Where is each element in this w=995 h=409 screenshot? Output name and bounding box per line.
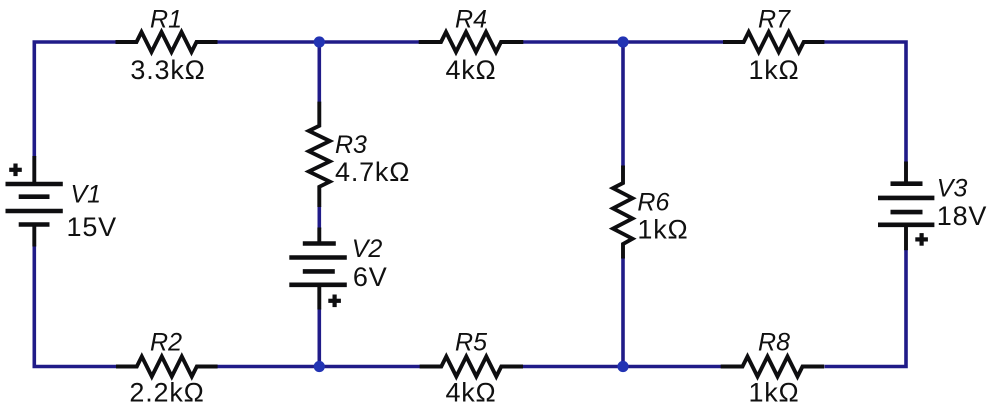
- svg-text:1kΩ: 1kΩ: [748, 378, 799, 408]
- svg-text:R2: R2: [150, 329, 182, 357]
- resistor R2: [116, 357, 218, 377]
- wire branch1 upper (node1 to R3): [317, 42, 321, 103]
- svg-text:4.7kΩ: 4.7kΩ: [335, 157, 410, 187]
- resistor R7: [723, 32, 824, 52]
- svg-text:3.3kΩ: 3.3kΩ: [130, 55, 205, 85]
- resistor R8: [721, 357, 825, 377]
- wire bottom node1 segment: [217, 365, 421, 369]
- svg-text:2.2kΩ: 2.2kΩ: [129, 378, 204, 408]
- svg-text:R8: R8: [758, 329, 790, 357]
- svg-text:1kΩ: 1kΩ: [637, 214, 688, 244]
- svg-text:V1: V1: [71, 180, 102, 208]
- resistor R4: [419, 32, 524, 52]
- battery V1: [6, 156, 63, 247]
- wire bottom node2 segment: [523, 365, 722, 369]
- wire top node2 segment: [523, 40, 724, 44]
- svg-text:18V: 18V: [937, 201, 987, 231]
- wire branch2 upper (node2 to R6): [621, 42, 625, 167]
- wire branch1 middle (R3 to V2): [317, 206, 321, 229]
- battery V3: [878, 162, 934, 251]
- svg-text:R7: R7: [758, 6, 791, 34]
- wire branch2 lower (R6 to bottom node2): [621, 258, 625, 367]
- resistor R1: [116, 32, 218, 52]
- svg-text:15V: 15V: [67, 212, 117, 242]
- svg-text:6V: 6V: [353, 262, 388, 292]
- battery V2 plus sign: [328, 295, 341, 308]
- wire top-left segment: [34, 42, 116, 157]
- battery V3 plus sign: [915, 233, 928, 246]
- wire top node1 segment: [217, 40, 420, 44]
- svg-text:R1: R1: [150, 6, 182, 34]
- resistor R6 (vertical): [613, 166, 633, 259]
- node D (bottom junction 2): [617, 361, 628, 372]
- svg-text:V2: V2: [352, 235, 383, 263]
- svg-text:R4: R4: [455, 6, 487, 34]
- wire bottom-left segment: [34, 246, 116, 367]
- battery V1 plus sign: [9, 164, 22, 177]
- svg-text:4kΩ: 4kΩ: [445, 55, 496, 85]
- battery V2: [289, 228, 347, 310]
- node B (top junction 2): [617, 36, 628, 47]
- wire top-right segment: [824, 42, 906, 162]
- resistor R3 (vertical): [309, 102, 330, 207]
- wire branch1 lower (V2 to bottom node1): [317, 309, 321, 367]
- node A (top junction 1): [314, 36, 325, 47]
- svg-text:R5: R5: [455, 329, 487, 357]
- svg-text:V3: V3: [937, 175, 968, 203]
- resistor R5: [420, 357, 523, 377]
- svg-text:4kΩ: 4kΩ: [445, 378, 496, 408]
- svg-text:R3: R3: [335, 131, 367, 159]
- svg-text:R6: R6: [637, 189, 669, 217]
- node C (bottom junction 1): [314, 361, 325, 372]
- wire right-lower segment: [825, 249, 907, 366]
- svg-text:1kΩ: 1kΩ: [748, 55, 799, 85]
